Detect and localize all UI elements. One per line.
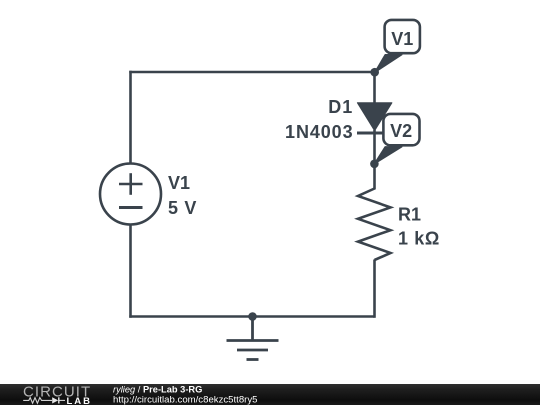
node flag V1 text (391, 29, 413, 49)
ground symbol (227, 317, 279, 360)
wire diode to resistor (373, 130, 376, 190)
label V1 value 5 V (168, 198, 197, 218)
svg-text:LAB: LAB (67, 396, 93, 405)
node flag V2 pointer wedge (374, 147, 401, 164)
voltage source V1 circle (100, 164, 161, 225)
svg-text:V2: V2 (390, 121, 412, 141)
label D1 name (328, 97, 353, 117)
svg-text:5 V: 5 V (168, 198, 197, 218)
footer url line (113, 394, 258, 405)
node flag V1 pointer wedge (375, 55, 402, 73)
svg-text:1N4003: 1N4003 (285, 122, 353, 142)
wire top horizontal (129, 71, 374, 74)
label D1 value 1N4003 (285, 122, 353, 142)
CircuitLab logo text CIRCUIT (23, 383, 91, 400)
wire bottom horizontal (129, 315, 374, 318)
wire left vertical lower (129, 225, 132, 318)
svg-text:V1: V1 (391, 29, 413, 49)
resistor R1 zigzag (358, 189, 391, 261)
voltage source V1 minus sign (119, 206, 143, 209)
svg-text:http://circuitlab.com/c8ekzc5t: http://circuitlab.com/c8ekzc5tt8ry5 (113, 394, 258, 405)
svg-text:rylieg / Pre-Lab 3-RG: rylieg / Pre-Lab 3-RG (113, 385, 202, 395)
footer bar (0, 384, 540, 405)
svg-text:R1: R1 (398, 205, 421, 225)
wire resistor to bottom (373, 260, 376, 318)
wire left vertical upper (129, 71, 132, 164)
node flag V2 text (390, 121, 412, 141)
node flag V2 box (383, 114, 419, 145)
label R1 value 1 kOhm (398, 229, 440, 249)
CircuitLab logo squiggle (resistor + diode) (23, 398, 52, 404)
CircuitLab logo text LAB (67, 396, 93, 407)
svg-text:1 kΩ: 1 kΩ (398, 229, 440, 249)
svg-text:D1: D1 (328, 97, 353, 117)
wire right vertical top (to diode) (373, 72, 376, 104)
diode D1 cathode bar (357, 132, 392, 135)
footer attribution line (113, 385, 202, 395)
svg-text:V1: V1 (168, 173, 190, 193)
label R1 name (398, 205, 421, 225)
junction dot node V2 (370, 160, 379, 169)
junction dot ground node (248, 312, 257, 321)
voltage source V1 plus sign (119, 173, 143, 195)
diode D1 triangle (358, 103, 392, 131)
junction dot node V1 (370, 68, 379, 77)
label V1 name (168, 173, 190, 193)
node flag V1 box (385, 20, 420, 53)
